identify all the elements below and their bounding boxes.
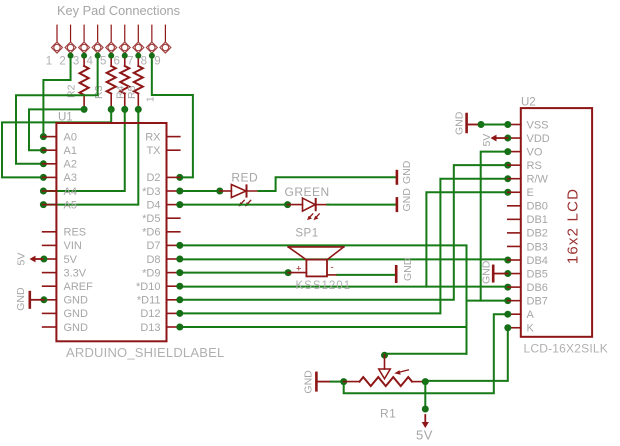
svg-text:D4: D4 (146, 199, 160, 211)
ground GND symbol left of R1 (303, 370, 344, 394)
svg-text:A5: A5 (64, 199, 77, 211)
ground GND symbol at LCD DB5 (481, 260, 512, 284)
U1 left pin stubs and labels (43, 131, 94, 333)
svg-text:VO: VO (527, 146, 543, 158)
svg-text:A: A (527, 309, 535, 321)
wire LED RED cathode to GND (up and right) (259, 177, 396, 191)
svg-text:DB2: DB2 (527, 228, 548, 240)
IC U1 ARDUINO_SHIELDLABEL (Arduino shield) box (56, 112, 224, 361)
svg-text:Key Pad Connections: Key Pad Connections (57, 3, 180, 18)
svg-text:D13: D13 (140, 322, 160, 334)
svg-text:2: 2 (59, 56, 65, 68)
svg-text:ARDUINO_SHIELDLABEL: ARDUINO_SHIELDLABEL (66, 345, 224, 360)
wire LCD DB7 to bundle vertical (467, 297, 512, 304)
wire U1 D7 to R1 wiper net (down at right) (176, 242, 466, 354)
svg-text:VIN: VIN (64, 240, 82, 252)
svg-text:R3: R3 (93, 85, 105, 99)
wire U1 D12 to LCD R/W (176, 175, 511, 317)
svg-text:A0: A0 (64, 131, 77, 143)
svg-text:RX: RX (145, 131, 161, 143)
svg-text:*D9: *D9 (142, 267, 160, 279)
svg-text:GND: GND (64, 308, 89, 320)
svg-text:*D10: *D10 (136, 281, 160, 293)
svg-text:5V: 5V (416, 428, 433, 443)
svg-text:*D3: *D3 (142, 186, 160, 198)
LCD pin stubs and labels (508, 119, 550, 334)
svg-text:3.3V: 3.3V (64, 267, 87, 279)
svg-text:GND: GND (481, 260, 493, 284)
wire R3 bottom to U1 A3 (2, 109, 111, 180)
svg-text:8: 8 (141, 56, 147, 68)
svg-text:GND: GND (64, 295, 89, 307)
ground GND symbol for LED GREEN (397, 188, 413, 212)
svg-text:DB0: DB0 (527, 201, 548, 213)
wire U1 D4 to LED GREEN anode (176, 201, 291, 208)
svg-text:R/W: R/W (527, 174, 549, 186)
svg-text:TX: TX (146, 145, 161, 157)
svg-text:*D5: *D5 (142, 213, 160, 225)
svg-text:AREF: AREF (64, 281, 94, 293)
connector pad 3 (keypad pin 3) (73, 25, 90, 67)
svg-text:D7: D7 (146, 240, 160, 252)
svg-text:GND: GND (454, 111, 466, 135)
connector pad 7 (keypad pin 7) (127, 25, 144, 67)
potentiometer R1 (340, 355, 429, 421)
svg-text:6: 6 (114, 56, 120, 68)
svg-text:D8: D8 (146, 254, 160, 266)
wire pad8 to U1 D2 (149, 53, 193, 181)
svg-text:E: E (527, 187, 534, 199)
LED RED (diode D, label RED) (220, 171, 261, 207)
supply 5V symbol at U1 5V pin (16, 253, 48, 266)
connector pad 4 (keypad pin 4) (86, 25, 103, 67)
wire U1 D13 to bundle vertical (176, 324, 466, 331)
IC U2 LCD-16X2SILK box (16x2 LCD) (521, 97, 608, 356)
connector pad 1 (keypad pin 1) (46, 25, 63, 67)
svg-text:DB6: DB6 (527, 282, 548, 294)
svg-text:LCD-16X2SILK: LCD-16X2SILK (524, 342, 608, 356)
wire R2 bottom to U1 A1 (29, 109, 84, 153)
U1 right pin stubs and labels (136, 131, 180, 333)
connector pad 2 (keypad pin 2) (59, 25, 76, 67)
wire LCD A to GND net of R1 (344, 311, 512, 394)
wire pad2 to U1 A0 (40, 53, 74, 141)
connector pad 6 (keypad pin 6) (114, 25, 131, 67)
wire speaker minus pin to GND (338, 274, 395, 276)
ground GND symbol for LED RED (397, 160, 413, 185)
svg-text:DB5: DB5 (527, 268, 548, 280)
svg-text:K: K (527, 323, 535, 335)
svg-text:4: 4 (86, 56, 93, 68)
svg-text:-: - (331, 262, 334, 273)
supply 5V symbol at LCD VDD (481, 134, 511, 147)
svg-text:GND: GND (64, 322, 89, 334)
wire U1 D8 to LCD DB4 (176, 256, 511, 264)
svg-text:GND: GND (303, 370, 315, 394)
speaker SP1 KSS1201 (288, 228, 351, 293)
svg-text:5V: 5V (16, 253, 28, 266)
wire U1 D11 to LCD RS (176, 162, 511, 304)
svg-text:DB4: DB4 (527, 255, 548, 267)
svg-text:5V: 5V (481, 134, 493, 147)
svg-text:GND: GND (401, 160, 413, 184)
svg-text:VDD: VDD (527, 133, 550, 145)
svg-text:VSS: VSS (527, 119, 549, 131)
svg-text:9: 9 (154, 56, 160, 68)
svg-text:RES: RES (64, 227, 87, 239)
wire LCD E down to D10 net (426, 189, 511, 287)
wire R4 bottom to U1 A4 (40, 109, 125, 194)
wire LCD VO down to DB7 row (481, 148, 512, 301)
wire LCD K to R1 right terminal and 5V (425, 324, 511, 381)
svg-text:R5: R5 (126, 85, 138, 99)
LED GREEN (diode, label GREEN) (285, 185, 330, 220)
resistor R5 (pull resistor under keypad pad) (126, 53, 143, 113)
svg-text:GND: GND (401, 188, 413, 212)
connector pad 8 (keypad pin 8) (141, 25, 158, 67)
wire LED GREEN cathode to GND (328, 204, 396, 206)
ground GND symbol for speaker (396, 257, 414, 283)
wire R5 bottom to U1 A5 (40, 109, 138, 208)
resistor R2 (pull resistor under keypad pad) (66, 53, 89, 113)
svg-text:DB7: DB7 (527, 295, 548, 307)
svg-text:D12: D12 (140, 308, 160, 320)
svg-text:5V: 5V (64, 254, 78, 266)
ground GND symbol at U1 GND pin (15, 287, 47, 311)
svg-text:A3: A3 (64, 172, 77, 184)
svg-text:1: 1 (146, 96, 157, 102)
svg-text:SP1: SP1 (295, 228, 318, 240)
connector pad 5 (keypad pin 5) (100, 25, 117, 67)
svg-text:*D11: *D11 (137, 295, 161, 307)
svg-text:GND: GND (402, 257, 414, 281)
svg-text:DB1: DB1 (527, 214, 548, 226)
svg-text:GREEN: GREEN (285, 185, 330, 199)
svg-text:*D6: *D6 (142, 227, 160, 239)
wire U1 D9 to speaker SP1 plus pin (176, 269, 291, 276)
svg-text:D2: D2 (146, 172, 160, 184)
supply 5V symbol below R1 (416, 382, 433, 443)
svg-text:U2: U2 (521, 97, 536, 109)
svg-text:KSS1201: KSS1201 (296, 280, 352, 292)
svg-text:1: 1 (46, 56, 52, 68)
svg-text:RED: RED (231, 171, 258, 185)
connector pad 9 (keypad pin 9) (154, 25, 171, 67)
svg-text:DB3: DB3 (527, 241, 548, 253)
svg-text:A2: A2 (64, 159, 77, 171)
resistor R3 (pull resistor under keypad pad) (93, 53, 116, 113)
svg-text:+: + (296, 264, 302, 275)
svg-text:A4: A4 (64, 186, 77, 198)
svg-text:5: 5 (100, 56, 106, 68)
wire R1 wiper to bundle vertical (381, 352, 467, 359)
svg-text:GND: GND (15, 287, 27, 311)
ground GND symbol at LCD VSS (454, 111, 512, 135)
wire U1 D10 to LCD DB6 (176, 283, 511, 291)
svg-text:A1: A1 (64, 145, 77, 157)
svg-text:7: 7 (127, 56, 133, 68)
svg-text:3: 3 (73, 56, 79, 68)
svg-text:U1: U1 (58, 112, 73, 124)
svg-text:16x2 LCD: 16x2 LCD (565, 188, 582, 264)
svg-text:RS: RS (527, 160, 542, 172)
wire pad4 to U1 A2 (16, 53, 101, 168)
wire U1 D3 to LED RED anode (176, 188, 223, 195)
svg-text:R4: R4 (115, 85, 127, 99)
resistor R4 (pull resistor under keypad pad) (115, 53, 130, 113)
svg-text:R1: R1 (380, 407, 396, 421)
